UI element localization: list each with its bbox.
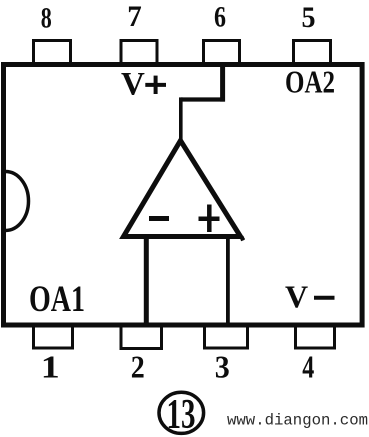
svg-text:5: 5 [302, 2, 316, 34]
svg-text:V: V [121, 67, 145, 103]
svg-text:V: V [285, 279, 308, 315]
svg-text:www.diangon.com: www.diangon.com [227, 412, 368, 430]
svg-text:3: 3 [215, 349, 230, 385]
svg-text:13: 13 [167, 392, 196, 437]
svg-text:2: 2 [131, 349, 145, 385]
svg-text:1: 1 [41, 349, 60, 385]
svg-text:6: 6 [214, 2, 226, 34]
svg-text:OA1: OA1 [29, 279, 85, 320]
svg-text:8: 8 [41, 2, 52, 34]
svg-text:7: 7 [127, 1, 142, 33]
svg-text:4: 4 [302, 349, 314, 385]
svg-text:OA2: OA2 [285, 64, 335, 100]
